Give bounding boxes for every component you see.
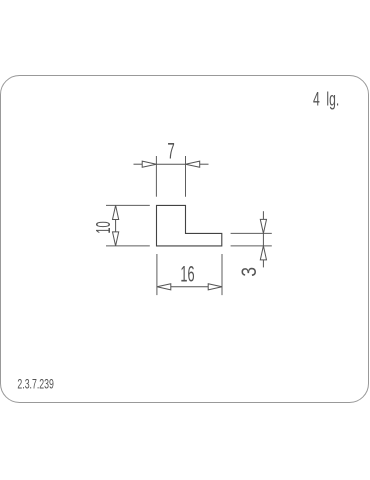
dimension line xyxy=(115,220,117,232)
arrow down (open) xyxy=(113,232,119,246)
svg-text:16: 16 xyxy=(180,262,194,287)
extension line bottom xyxy=(231,245,272,247)
svg-text:2.3.7.239: 2.3.7.239 xyxy=(17,375,54,391)
svg-text:3: 3 xyxy=(238,267,261,277)
svg-text:10: 10 xyxy=(93,221,115,233)
arrow up (open) xyxy=(113,205,119,219)
upper tail xyxy=(262,211,264,219)
L-profile outline xyxy=(157,205,222,246)
extension line right xyxy=(185,156,187,197)
dimension 7 (top) xyxy=(156,156,185,197)
right arrow (open, pointing left) xyxy=(186,161,200,167)
dimension 16 (bottom) xyxy=(157,254,222,295)
dimension line between xyxy=(262,233,264,246)
dimension 10 (left) xyxy=(106,205,150,246)
extension line top xyxy=(106,204,150,206)
right arrow (open, pointing right) xyxy=(208,284,222,290)
right tail xyxy=(200,163,209,165)
extension line top xyxy=(231,232,272,234)
drawing sheet frame (rounded border) xyxy=(1,76,369,403)
svg-text:7: 7 xyxy=(167,139,174,164)
extension line bottom xyxy=(106,245,150,247)
dimension line xyxy=(156,163,185,165)
left tail xyxy=(134,163,143,165)
left arrow (open, pointing left) xyxy=(157,284,171,290)
extension line left xyxy=(156,254,158,295)
extension line right xyxy=(221,254,223,295)
arrow up (open) xyxy=(260,246,266,260)
svg-text:lg.: lg. xyxy=(326,90,339,111)
extension line left xyxy=(155,156,157,197)
svg-text:4: 4 xyxy=(313,90,320,111)
dimension line xyxy=(171,286,208,288)
left arrow (open, pointing right) xyxy=(142,161,156,167)
dimension 3 (right) xyxy=(231,233,272,246)
arrow down (open) xyxy=(260,219,266,233)
lower tail xyxy=(262,260,264,268)
